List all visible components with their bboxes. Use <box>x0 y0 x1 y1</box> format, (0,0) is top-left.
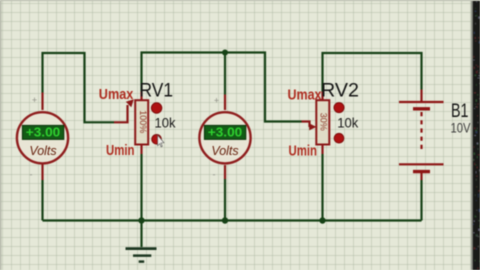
svg-text:Umin: Umin <box>289 143 318 160</box>
svg-text:10k: 10k <box>337 115 359 131</box>
svg-text:+: + <box>32 95 37 105</box>
svg-text:Umax: Umax <box>99 86 134 103</box>
svg-text:-: - <box>213 170 216 180</box>
svg-text:Volts: Volts <box>29 144 56 158</box>
svg-text:+3.00: +3.00 <box>208 126 243 140</box>
svg-text:+3.00: +3.00 <box>26 126 61 140</box>
svg-text:+: + <box>214 96 219 106</box>
svg-text:10V: 10V <box>451 121 471 136</box>
svg-text:RV1: RV1 <box>140 80 174 102</box>
svg-text:Umin: Umin <box>106 142 135 159</box>
svg-text:Volts: Volts <box>211 144 238 158</box>
svg-text:100%: 100% <box>138 110 148 133</box>
svg-text:10k: 10k <box>155 115 177 131</box>
svg-text:B1: B1 <box>451 100 469 122</box>
svg-text:30%: 30% <box>318 113 328 131</box>
svg-text:Umax: Umax <box>288 87 323 104</box>
svg-text:-: - <box>30 170 33 180</box>
svg-text:RV2: RV2 <box>321 80 359 102</box>
